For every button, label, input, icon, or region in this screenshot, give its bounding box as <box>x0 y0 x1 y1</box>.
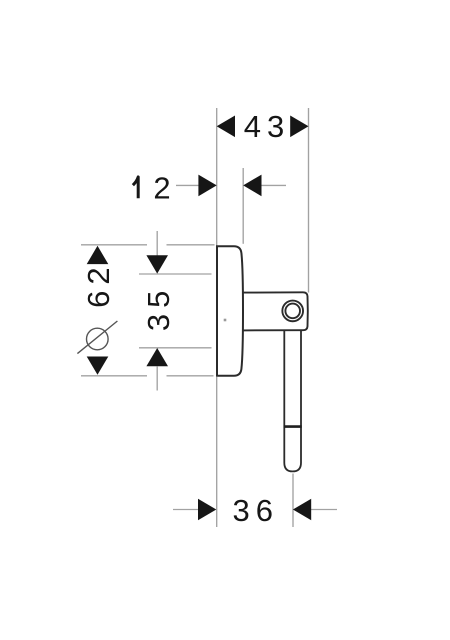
svg-text:2: 2 <box>153 170 176 205</box>
svg-text:43: 43 <box>244 109 290 144</box>
svg-text:36: 36 <box>233 493 279 528</box>
svg-text:35: 35 <box>141 285 176 331</box>
svg-text:62: 62 <box>81 261 116 307</box>
